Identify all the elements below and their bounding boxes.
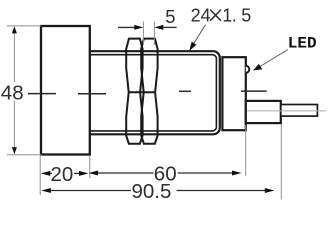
thread root inner line: [90, 55, 217, 131]
LED bump: [246, 66, 250, 73]
leader for 24x1.5: [193, 25, 206, 46]
svg-text:5: 5: [241, 5, 251, 25]
cable gland: [246, 101, 281, 123]
svg-text:90.5: 90.5: [132, 180, 172, 203]
svg-text:LED: LED: [288, 35, 317, 53]
svg-text:.: .: [232, 5, 237, 25]
threaded barrel outer outline: [90, 51, 220, 134]
sensor head rectangle: [41, 26, 90, 155]
end cap: [222, 57, 245, 130]
svg-text:20: 20: [51, 163, 74, 186]
nut waist line: [129, 91, 155, 93]
hex nut 1: [126, 39, 142, 144]
cable centerline: [247, 110, 326, 112]
axis centerline ticks: [28, 91, 267, 94]
5 dimension: [143, 22, 154, 46]
48 dimension: [7, 26, 42, 155]
svg-text:24: 24: [191, 5, 211, 25]
hex nut 2: [141, 39, 157, 144]
20 dimension: [49, 172, 52, 174]
bottom extension lines: [40, 124, 281, 200]
svg-text:5: 5: [165, 6, 175, 27]
90.5 dimension: [51, 190, 132, 192]
60 dimension: [98, 172, 154, 174]
LED leader: [260, 50, 288, 67]
svg-text:48: 48: [1, 81, 24, 104]
cable: [281, 105, 318, 117]
